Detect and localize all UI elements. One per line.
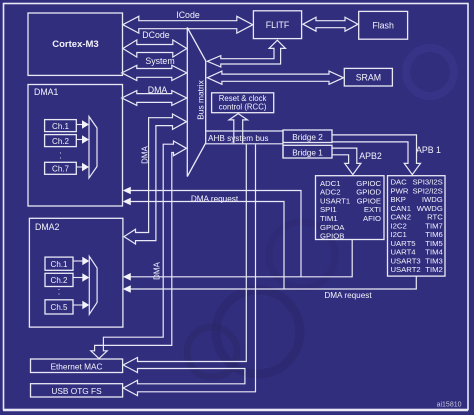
svg-text:SPI1: SPI1 bbox=[320, 205, 337, 214]
label DMA request (upper) bbox=[191, 194, 239, 203]
svg-text:Ch.1: Ch.1 bbox=[52, 122, 69, 131]
block Ethernet MAC bbox=[31, 359, 123, 373]
svg-text:PWR: PWR bbox=[391, 186, 409, 195]
svg-text:control (RCC): control (RCC) bbox=[219, 103, 267, 112]
svg-text:Ch.5: Ch.5 bbox=[51, 303, 68, 312]
bus Ethernet to bus-matrix (elbow) bbox=[91, 141, 187, 359]
arrow Ch.2 to DMA2 mux bbox=[73, 273, 89, 281]
svg-text:USART1: USART1 bbox=[320, 196, 350, 205]
svg-text:SRAM: SRAM bbox=[356, 73, 381, 83]
svg-text:DMA2: DMA2 bbox=[35, 222, 60, 232]
svg-text:GPIOA: GPIOA bbox=[320, 223, 345, 232]
arrow Ch.1 to DMA1 mux bbox=[76, 120, 89, 128]
label DMA (DMA1 bus) bbox=[148, 85, 168, 95]
svg-text:I2C2: I2C2 bbox=[391, 221, 407, 230]
arrow Ch.7 to DMA1 mux bbox=[76, 163, 89, 171]
channel Ch.1 (DMA1) bbox=[45, 120, 77, 132]
svg-text:DMA1: DMA1 bbox=[34, 87, 59, 97]
dots between DMA2 channels bbox=[58, 282, 61, 297]
svg-text:TIM5: TIM5 bbox=[425, 239, 443, 248]
svg-text:GPIOD: GPIOD bbox=[356, 188, 381, 197]
svg-text:DMA request: DMA request bbox=[191, 194, 239, 203]
label DMA (Ethernet bus) bbox=[152, 261, 161, 279]
wire DMA request APB2-to-DMA1 bbox=[123, 187, 301, 277]
svg-text:TIM7: TIM7 bbox=[425, 221, 443, 230]
bus AHB to Ethernet MAC and USB OTG FS bbox=[123, 144, 255, 395]
block Bridge 2 bbox=[283, 130, 332, 143]
label ai15810 bbox=[437, 401, 462, 408]
bus matrix bbox=[187, 28, 205, 177]
svg-text:RTC: RTC bbox=[427, 213, 443, 222]
svg-text:APB 1: APB 1 bbox=[416, 145, 441, 155]
wire DMA request APB1-to-DMA1 bbox=[123, 198, 284, 289]
svg-text:CAN2: CAN2 bbox=[391, 213, 412, 222]
block Bridge 1 bbox=[283, 145, 332, 158]
bus bus-matrix to FLITF (elbow) bbox=[207, 40, 285, 67]
svg-text:CAN1: CAN1 bbox=[391, 204, 412, 213]
svg-text:WWDG: WWDG bbox=[417, 204, 443, 213]
svg-text:USART2: USART2 bbox=[391, 265, 421, 274]
svg-text:Cortex-M3: Cortex-M3 bbox=[52, 39, 98, 50]
dots between DMA1 channels bbox=[59, 146, 62, 161]
wire AHB system bus bbox=[205, 130, 283, 158]
bus System (Cortex-M3 to bus matrix) bbox=[122, 65, 187, 80]
block FLITF bbox=[253, 11, 301, 39]
block USB OTG FS bbox=[31, 384, 123, 397]
svg-text:TIM6: TIM6 bbox=[425, 230, 443, 239]
label APB2 bbox=[359, 151, 382, 161]
svg-text:BKP: BKP bbox=[391, 195, 406, 204]
svg-text:Ch.7: Ch.7 bbox=[52, 165, 69, 174]
svg-text:ADC1: ADC1 bbox=[320, 179, 341, 188]
svg-text:IWDG: IWDG bbox=[422, 195, 443, 204]
arrow Ch.5 to DMA2 mux bbox=[73, 301, 89, 309]
svg-text:DAC: DAC bbox=[391, 178, 408, 187]
label ICode bbox=[176, 10, 200, 20]
svg-text:TIM4: TIM4 bbox=[425, 248, 443, 257]
svg-text:EXTI: EXTI bbox=[364, 205, 381, 214]
decorative watermark rings bbox=[187, 48, 454, 377]
arrow Ch.1 to DMA2 mux bbox=[73, 257, 89, 265]
svg-text:AHB system bus: AHB system bus bbox=[208, 134, 269, 143]
svg-text:ADC2: ADC2 bbox=[320, 188, 341, 197]
svg-text:I2C1: I2C1 bbox=[391, 230, 407, 239]
block DMA2 bbox=[29, 218, 123, 327]
svg-text:GPIOC: GPIOC bbox=[356, 179, 381, 188]
svg-text:Reset & clock: Reset & clock bbox=[219, 94, 267, 103]
svg-text:ICode: ICode bbox=[176, 10, 200, 20]
wire DMA request APB2-to-DMA2 bbox=[123, 240, 352, 281]
bus ICode (Cortex-M3 to FLITF) bbox=[123, 16, 253, 33]
mux DMA2 bbox=[89, 256, 97, 314]
block Cortex-M3 bbox=[28, 13, 123, 75]
block DMA1 bbox=[28, 85, 123, 207]
channel Ch.2 (DMA2) bbox=[45, 273, 73, 286]
svg-text:.: . bbox=[58, 282, 61, 292]
svg-text:APB2: APB2 bbox=[359, 151, 382, 161]
svg-text:Ethernet MAC: Ethernet MAC bbox=[50, 361, 102, 371]
bus SRAM (bus matrix to SRAM) bbox=[207, 71, 343, 84]
svg-text:USART3: USART3 bbox=[391, 256, 421, 265]
arrow Ch.2 to DMA1 mux bbox=[76, 135, 89, 143]
svg-text:GPIOE: GPIOE bbox=[357, 196, 381, 205]
label DMA request (lower) bbox=[324, 291, 372, 300]
svg-text:Bridge 2: Bridge 2 bbox=[292, 133, 323, 142]
svg-text:DMA: DMA bbox=[141, 145, 150, 163]
bus DMA2 to bus-matrix (elbow, double arrow) bbox=[124, 114, 187, 244]
block Reset & clock control (RCC) bbox=[212, 93, 274, 113]
svg-text:Bus matrix: Bus matrix bbox=[196, 79, 206, 119]
svg-text:System: System bbox=[145, 56, 174, 66]
label DCode bbox=[142, 30, 169, 40]
label AHB system bus bbox=[208, 134, 269, 143]
svg-text:SPI2/I2S: SPI2/I2S bbox=[412, 186, 442, 195]
channel Ch.5 (DMA2) bbox=[45, 300, 73, 314]
bus DCode (Cortex-M3 to bus matrix) bbox=[123, 40, 187, 57]
svg-text:Bridge 1: Bridge 1 bbox=[292, 148, 323, 157]
svg-text:TIM2: TIM2 bbox=[425, 265, 443, 274]
svg-text:DMA request: DMA request bbox=[324, 291, 372, 300]
svg-text:Flash: Flash bbox=[372, 21, 394, 31]
svg-text:Ch.1: Ch.1 bbox=[51, 260, 68, 269]
svg-text:FLITF: FLITF bbox=[266, 20, 290, 30]
label System bbox=[145, 56, 174, 66]
channel Ch.7 (DMA1) bbox=[45, 162, 77, 174]
block APB2 peripherals bbox=[316, 176, 385, 241]
svg-text:SPI3/I2S: SPI3/I2S bbox=[412, 178, 442, 187]
block APB1 peripherals bbox=[388, 176, 446, 276]
bus FLITF to Flash bbox=[303, 17, 358, 31]
wire DMA request APB1-to-DMA2 bbox=[123, 276, 417, 292]
svg-text:TIM1: TIM1 bbox=[320, 214, 338, 223]
arrow Bridge 1 to APB2 bbox=[332, 148, 361, 175]
svg-text:.: . bbox=[59, 146, 62, 156]
svg-text:DCode: DCode bbox=[142, 30, 169, 40]
channel Ch.2 (DMA1) bbox=[45, 135, 77, 147]
channel Ch.1 (DMA2) bbox=[45, 257, 73, 270]
mux DMA1 bbox=[89, 117, 97, 179]
svg-text:GPIOB: GPIOB bbox=[320, 232, 344, 241]
svg-text:AFIO: AFIO bbox=[363, 214, 381, 223]
arrow Bridge 2 to APB1 bbox=[332, 135, 421, 175]
label DMA (DMA2 bus) bbox=[141, 145, 150, 163]
label APB1 bbox=[416, 145, 441, 155]
svg-text:UART5: UART5 bbox=[391, 239, 416, 248]
svg-text:USB OTG FS: USB OTG FS bbox=[51, 386, 102, 396]
block Flash bbox=[359, 11, 408, 39]
svg-text:TIM3: TIM3 bbox=[425, 256, 443, 265]
svg-text:UART4: UART4 bbox=[391, 248, 417, 257]
svg-text:ai15810: ai15810 bbox=[437, 401, 462, 408]
bus DMA (DMA1 to bus matrix) bbox=[122, 91, 187, 106]
block SRAM bbox=[344, 68, 392, 86]
arrow AHB bus to RCC bbox=[229, 114, 248, 144]
